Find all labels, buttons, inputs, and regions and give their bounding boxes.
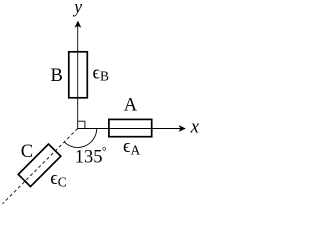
svg-text:C: C <box>21 142 33 162</box>
y axis arrowhead <box>75 21 82 28</box>
dashed 135-degree line through gauge C <box>3 129 78 204</box>
y axis wire <box>77 24 79 129</box>
svg-text:y: y <box>72 0 82 17</box>
svg-text:°: ° <box>102 146 107 158</box>
svg-text:B: B <box>51 66 63 86</box>
gauge C rectangle (rotated 45 deg) <box>18 144 60 186</box>
135-degree arc <box>64 129 96 148</box>
svg-text:x: x <box>190 118 200 138</box>
x axis wire <box>78 128 182 130</box>
gauge A rectangle <box>109 119 152 136</box>
svg-text:A: A <box>124 96 138 116</box>
svg-text:135: 135 <box>75 147 103 167</box>
right angle marker at origin <box>78 121 85 128</box>
gauge B rectangle <box>69 52 88 98</box>
x axis arrowhead <box>179 125 186 132</box>
